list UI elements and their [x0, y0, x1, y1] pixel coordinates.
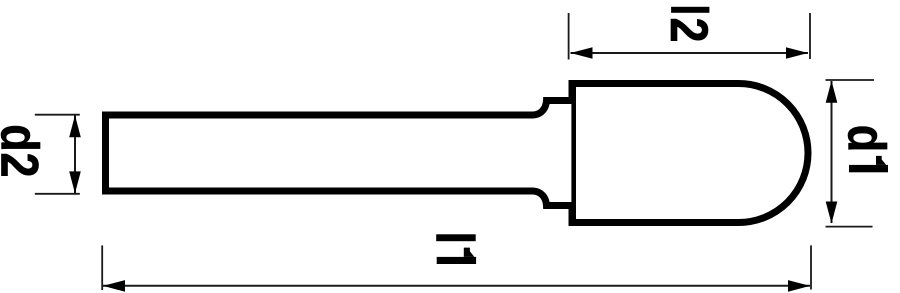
d1 arrow up	[826, 81, 838, 103]
svg-text:2: 2	[659, 18, 718, 43]
svg-text:2: 2	[0, 153, 49, 178]
l2 extension line right	[809, 13, 811, 59]
l2 dimension line	[571, 52, 809, 54]
d2 arrow down	[69, 171, 81, 193]
label d1	[837, 125, 896, 173]
d2 extension line bottom	[35, 193, 80, 195]
d1 extension line bottom	[826, 226, 873, 228]
l2 arrow left	[571, 47, 593, 59]
d2 dimension line	[74, 116, 76, 194]
l1 dimension line	[103, 285, 810, 287]
d1 extension line top	[826, 79, 875, 81]
svg-text:d: d	[837, 125, 896, 153]
l1 arrow right	[788, 280, 810, 292]
head face line	[571, 84, 576, 223]
d2 extension line top	[35, 114, 80, 116]
d1 arrow down	[826, 202, 838, 224]
l2 arrow right	[786, 47, 808, 59]
label l2	[659, 7, 718, 43]
l1 extension line left	[101, 245, 103, 290]
d1 dimension line	[831, 81, 833, 223]
svg-text:d: d	[0, 124, 49, 152]
l2 extension line left	[568, 13, 570, 60]
l1 extension line right	[810, 245, 812, 289]
d2 arrow up	[69, 115, 81, 137]
l1 arrow left	[103, 280, 125, 292]
burr body silhouette (shank, collar, ball-nose head)	[106, 84, 809, 223]
label d2	[0, 124, 49, 177]
label l1	[436, 234, 476, 264]
